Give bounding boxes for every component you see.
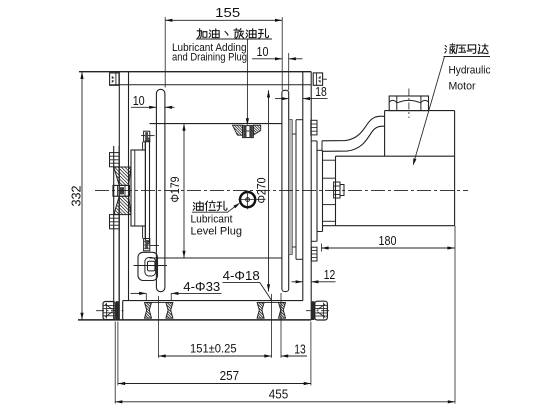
drum barrel bottom: [150, 257, 282, 259]
rope clamp inner: [148, 261, 155, 271]
lubricant level plug circle: [240, 192, 255, 207]
rope clamp centerline: [134, 265, 168, 267]
svg-text:257: 257: [220, 369, 240, 383]
leader to adding plug: [246, 39, 248, 121]
dim 10 top (flange): [252, 58, 282, 60]
motor mount plate: [316, 141, 318, 241]
rope clamp stem: [142, 226, 144, 239]
base hole left (hatched walls): [145, 303, 152, 319]
dim 10 left (rod): [131, 106, 156, 108]
foundation bolt left: [103, 302, 115, 320]
main centerline: [95, 190, 468, 192]
bolt right lower: [311, 247, 317, 261]
svg-text:Motor: Motor: [449, 81, 476, 93]
upper clamp stem: [142, 142, 144, 150]
pipe lower line: [322, 126, 385, 151]
dim 455: [115, 401, 455, 403]
right plate dark edge at base: [311, 301, 314, 320]
svg-text:Φ179: Φ179: [168, 176, 182, 202]
svg-text:151±0.25: 151±0.25: [190, 341, 237, 355]
lubricant adding plug body: [243, 126, 254, 138]
wire top frame inner line: [109, 84, 311, 86]
upper clamp bolt: [144, 131, 150, 142]
ring gear band on right flange: [289, 120, 293, 255]
label oil level plug: [193, 201, 203, 210]
left bracket plate: [113, 146, 115, 320]
bolt left bracket top: [110, 153, 120, 167]
base hole right (hatched walls): [257, 303, 264, 319]
svg-text:10: 10: [133, 94, 145, 108]
drum right flange: [282, 90, 289, 291]
rope clamp bolt: [144, 239, 150, 251]
cone section lower (hatched): [114, 196, 131, 214]
leader to level plug circle: [228, 204, 239, 213]
pipe end cap: [321, 141, 323, 152]
svg-text:4-Φ18: 4-Φ18: [223, 269, 260, 283]
bolt motor flange: [334, 182, 340, 198]
dim 151: [159, 355, 272, 357]
nut left center: [113, 185, 130, 196]
motor flange face: [335, 156, 337, 226]
svg-text:4-Φ33: 4-Φ33: [183, 280, 220, 294]
svg-text:13: 13: [294, 343, 306, 357]
left bearing housing: [131, 150, 145, 226]
housing step bottom: [129, 210, 132, 214]
dim 180: [321, 247, 454, 249]
bolt top-right corner: [313, 73, 322, 85]
dim 18 (flange to plate): [275, 98, 289, 100]
label hydraulic motor: [445, 44, 455, 54]
rope clamp outer: [138, 252, 158, 280]
foundation bolt centerline right: [306, 310, 332, 312]
bolt top-left corner: [110, 73, 119, 85]
foundation bolt right: [315, 301, 328, 320]
svg-text:Level Plug: Level Plug: [191, 225, 243, 237]
dim 155: [165, 19, 282, 21]
brake drum line: [295, 120, 297, 260]
dim 13: [281, 355, 307, 357]
svg-text:18: 18: [315, 85, 327, 99]
hex nut on valve block: [389, 96, 428, 111]
dim 332: [81, 72, 83, 320]
lubricant adding plug hatched left: [233, 125, 243, 135]
left support plate: [145, 141, 149, 241]
dim 12: [292, 281, 303, 283]
bolt left bracket bottom: [110, 215, 120, 229]
dim phi270: [268, 90, 270, 291]
svg-text:180: 180: [379, 234, 397, 248]
svg-text:455: 455: [269, 388, 289, 402]
svg-text:Hydraulic: Hydraulic: [449, 65, 491, 77]
rope clamp middle: [145, 258, 156, 277]
svg-text:332: 332: [69, 186, 84, 207]
bolt right upper: [311, 120, 317, 135]
dim 257: [118, 383, 311, 385]
base plate: [123, 300, 303, 302]
motor spacer: [322, 150, 324, 231]
svg-text:12: 12: [324, 268, 336, 282]
left plate dark edge at base: [116, 301, 120, 320]
svg-text:155: 155: [215, 5, 240, 20]
label 4-phi18: [223, 281, 260, 283]
pipe upper line: [322, 116, 385, 141]
svg-text:Lubricant: Lubricant: [191, 213, 234, 225]
foundation bolt centerline left: [96, 310, 125, 312]
nut centerline: [408, 89, 410, 119]
svg-text:and Draining Plug: and Draining Plug: [172, 51, 247, 63]
left frame plate: [118, 72, 120, 320]
right frame plate: [302, 72, 304, 301]
hydraulic motor body: [336, 155, 455, 157]
label lubricant adding and draining plug: [197, 29, 207, 39]
motor flange boss lines: [323, 159, 336, 161]
label 4-phi33: [131, 292, 147, 294]
leader to motor: [415, 57, 445, 161]
motor valve block: [384, 111, 386, 157]
cone section upper (hatched): [114, 167, 131, 185]
dim phi179: [183, 124, 185, 258]
rope guide rod: [156, 89, 165, 291]
wire top frame line: [79, 71, 311, 73]
svg-text:Φ270: Φ270: [255, 177, 269, 203]
lubricant adding plug hatched right: [253, 125, 260, 135]
housing step top: [129, 167, 132, 171]
drum barrel top: [150, 123, 282, 125]
svg-text:10: 10: [257, 45, 269, 59]
